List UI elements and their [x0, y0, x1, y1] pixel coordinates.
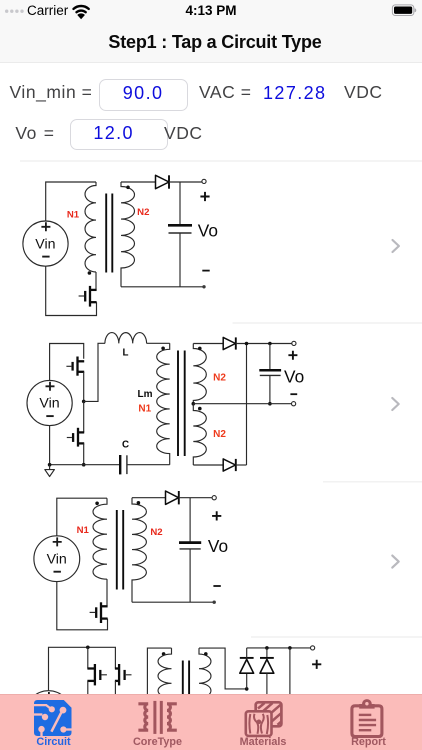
svg-text:Vin: Vin [47, 551, 67, 567]
label N2 (circuit 3) [150, 527, 162, 538]
diode D2 (circuit 4) [260, 648, 274, 694]
svg-text:N1: N1 [138, 403, 151, 414]
label N1 (circuit 1) [67, 210, 80, 221]
node: center tap (circuit 2) [192, 402, 196, 406]
wire: circuit 4 primary top [147, 648, 171, 694]
transformer primary winding N1 (circuit 1) [85, 182, 96, 272]
output + terminal (circuit 4) [311, 646, 315, 650]
svg-text:Lm: Lm [138, 389, 153, 400]
wire: center tap to - terminal (circuit 2) [193, 403, 291, 405]
label Vo (circuit 3) [208, 536, 228, 556]
transformer secondary winding N2 (circuit 3) [132, 498, 146, 603]
MOSFET A (circuit 4) [87, 647, 107, 694]
tab icon: Materials (wood) [246, 702, 282, 736]
wire: circuit 1 diode to + terminal [169, 181, 202, 183]
svg-text:N2: N2 [150, 527, 162, 538]
voltage source Vin (circuit 1) [23, 221, 68, 266]
separator below circuit row 1 [233, 322, 422, 324]
wire: circuit 1 left bottom from Vin to MOSFET source [46, 266, 97, 315]
node: rectifier junction on top rail (circuit 2) [245, 342, 249, 346]
transformer secondary lower winding N2 (circuit 2) [193, 404, 206, 465]
wire: circuit 3 secondary top to diode [132, 497, 166, 499]
wire: bottom rail from Vin to resonant cap (circuit 2) [50, 426, 120, 465]
wire: rectifier common vertical (circuit 2) [246, 344, 248, 466]
chevron row 1 [393, 240, 399, 252]
MOSFET Q2 low side (circuit 2) [67, 401, 84, 464]
label N2 lower (circuit 2) [213, 429, 226, 440]
diode D1 (circuit 1) [156, 175, 170, 188]
label Vo (circuit 1) [198, 220, 218, 240]
resonant capacitor C (circuit 2) [120, 455, 170, 474]
node: Q2 source on return rail (circuit 2) [82, 463, 86, 467]
wire: circuit 4 output top rail [247, 647, 311, 649]
MOSFET B (circuit 4) [115, 664, 132, 694]
output - terminal (circuit 1) [202, 285, 205, 288]
transformer core (circuit 1) [106, 194, 112, 273]
MOSFET Q1 (circuit 3) [90, 579, 108, 623]
wire: secondary top to diode D1 (circuit 2) [193, 343, 223, 345]
svg-text:N2: N2 [137, 207, 149, 218]
chevron row 3 [392, 556, 398, 568]
transformer secondary winding N2 (circuit 1) [121, 182, 135, 287]
output + terminal (circuit 2) [292, 341, 296, 345]
wire: Q1 source to midpoint node (circuit 2) [83, 372, 85, 402]
svg-text:L: L [123, 347, 129, 358]
svg-text:C: C [122, 439, 129, 450]
output capacitor (circuit 1) [168, 182, 192, 287]
node: half-bridge midpoint (circuit 2) [82, 400, 86, 404]
wire: circuit 1 secondary bottom [121, 286, 204, 288]
wire: circuit 4 top rail left [49, 647, 116, 690]
svg-text:N1: N1 [77, 525, 90, 536]
label N1 (circuit 3) [77, 525, 90, 536]
transformer secondary winding (circuit 4) [199, 648, 211, 700]
wire: secondary bottom to diode D2 (circuit 2) [193, 464, 223, 466]
node: cap top (circuit 2) [268, 342, 272, 346]
output + terminal (circuit 3) [212, 496, 216, 500]
transformer primary winding (circuit 4) [158, 648, 172, 700]
node: D2 cathode tap (circuit 4) [265, 646, 269, 650]
transformer core (circuit 3) [117, 510, 123, 590]
wire: circuit 2 top from Vin to Q1 drain [50, 344, 84, 381]
label Vo (circuit 2) [284, 367, 304, 387]
node: cap bottom (circuit 2) [268, 402, 272, 406]
voltage source Vin (circuit 2) [27, 380, 72, 425]
transformer secondary upper winding N2 (circuit 2) [193, 344, 206, 404]
polarity dot primary (circuit 4) [162, 652, 166, 656]
status bar icons [0, 0, 422, 26]
wire: inductor to primary (circuit 2) [147, 342, 170, 344]
node: D1 anode (circuit 4) [245, 687, 249, 691]
label N1 (circuit 2) [138, 403, 151, 414]
tab icon: Report (clipboard) [352, 699, 382, 736]
wire: secondary top to D1 anode (circuit 4) [199, 648, 247, 689]
transformer primary winding Lm/N1 (circuit 2) [157, 343, 170, 464]
diode D2 bottom rectifier (circuit 2) [223, 459, 236, 471]
wire: circuit 3 top from Vin to primary [57, 498, 107, 536]
tab icon: Circuit (PCB) [34, 700, 72, 736]
polarity dot primary (circuit 1) [88, 271, 92, 275]
separator below input rows [20, 160, 422, 162]
voltage source Vin (circuit 3) [34, 536, 80, 582]
polarity dot secondary lower (circuit 2) [198, 407, 202, 411]
wire: midpoint to resonant inductor (circuit 2) [84, 343, 105, 401]
output capacitor (circuit 2) [259, 344, 281, 404]
transformer core (circuit 2) [178, 351, 185, 457]
tab bar [0, 694, 422, 750]
label + (circuit 3) [212, 511, 221, 520]
label N2 (circuit 1) [137, 207, 149, 218]
polarity dot primary (circuit 2) [161, 347, 165, 351]
ground symbol (circuit 2) [45, 465, 55, 477]
label N2 upper (circuit 2) [213, 372, 226, 383]
label + (circuit 4) [312, 660, 321, 669]
wire: circuit 3 diode to + terminal [179, 497, 212, 499]
label Lm (circuit 2) [138, 389, 153, 400]
wire: circuit 1 top from Vin to primary [46, 182, 96, 221]
svg-text:N1: N1 [67, 210, 80, 221]
node: ground junction (circuit 2) [48, 463, 52, 467]
tab icon: CoreType (transformer core) [138, 700, 176, 733]
svg-text:Vo: Vo [208, 536, 228, 556]
transformer primary winding N1 (circuit 3) [93, 498, 107, 579]
output capacitor (circuit 3) [179, 498, 201, 603]
output - terminal (circuit 3) [213, 601, 216, 604]
separator below circuit row 2 [323, 481, 422, 483]
label - (circuit 3) [213, 585, 220, 587]
wire: D2 cathode to rectifier vertical (circuit 2) [236, 464, 247, 466]
polarity dot primary (circuit 3) [95, 502, 99, 506]
resonant inductor L (circuit 2) [105, 333, 147, 344]
wire: circuit 3 secondary bottom [132, 601, 214, 603]
diode D1 (circuit 3) [166, 491, 179, 504]
MOSFET Q1 high side (circuit 2) [66, 357, 84, 376]
svg-text:Vo: Vo [284, 367, 304, 387]
label - (circuit 2) [290, 393, 297, 395]
node: Q-A drain tap (circuit 4) [86, 646, 90, 650]
output + terminal (circuit 1) [202, 179, 206, 183]
output - terminal (circuit 2) [292, 402, 296, 406]
label L (circuit 2) [123, 347, 129, 358]
separator below circuit row 3 [251, 636, 422, 638]
node: output cap tap (circuit 4) [288, 646, 292, 650]
svg-text:N2: N2 [213, 372, 226, 383]
polarity dot secondary (circuit 3) [137, 501, 141, 505]
diode D1 top rectifier (circuit 2) [223, 337, 236, 349]
label + (circuit 1) [200, 192, 209, 201]
svg-text:Vin: Vin [35, 236, 55, 252]
polarity dot secondary upper (circuit 2) [198, 347, 202, 351]
polarity dot secondary (circuit 1) [126, 186, 130, 190]
wire: output cap lead (circuit 4) [289, 648, 291, 694]
wire: D1 cathode to + terminal (circuit 2) [236, 343, 292, 345]
diode D1 (circuit 4) [240, 648, 254, 689]
chevron row 2 [392, 398, 398, 410]
wire: circuit 3 left bottom from Vin to MOSFET source [57, 582, 108, 630]
polarity dot secondary (circuit 4) [204, 652, 208, 656]
input rows [10, 82, 93, 103]
wire: circuit 1 secondary top to diode [121, 181, 156, 183]
label C (circuit 2) [122, 439, 129, 450]
svg-text:N2: N2 [213, 429, 226, 440]
label + (circuit 2) [288, 351, 297, 360]
MOSFET Q1 (circuit 1) [79, 272, 97, 307]
transformer core (circuit 4) [183, 661, 189, 695]
svg-text:Vo: Vo [198, 220, 218, 240]
voltage source Vin (circuit 4) [26, 691, 71, 736]
label - (circuit 1) [202, 270, 209, 272]
svg-text:Vin: Vin [39, 396, 59, 412]
